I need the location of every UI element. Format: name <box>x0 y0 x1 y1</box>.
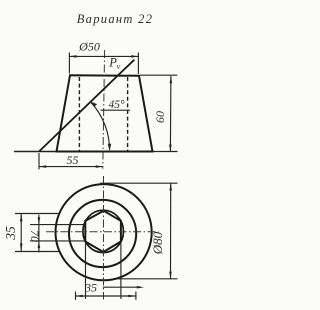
svg-text:35: 35 <box>3 226 18 241</box>
svg-text:Вариант 22: Вариант 22 <box>77 12 154 26</box>
svg-text:60: 60 <box>153 111 167 123</box>
svg-text:Ø50: Ø50 <box>78 40 100 54</box>
svg-text:35: 35 <box>84 281 97 295</box>
svg-text:70: 70 <box>28 230 42 242</box>
svg-text:v: v <box>117 62 121 71</box>
svg-text:Ø80: Ø80 <box>150 231 165 255</box>
svg-text:45°: 45° <box>108 99 125 111</box>
svg-text:55: 55 <box>67 153 79 167</box>
